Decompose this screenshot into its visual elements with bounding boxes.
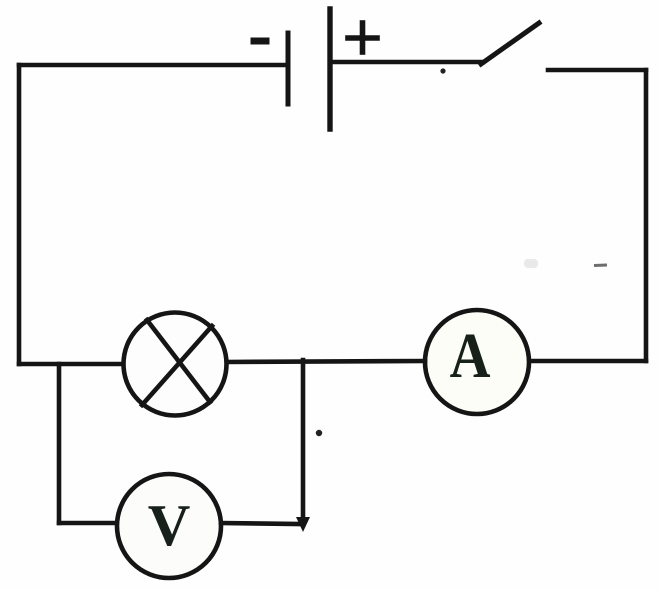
wire voltmeter to arrow junction xyxy=(221,523,300,524)
wire ammeter to lamp xyxy=(226,361,425,362)
faint smudge artifact xyxy=(524,259,538,268)
voltmeter U1 circle xyxy=(117,474,221,578)
wire right corner to ammeter xyxy=(529,359,646,364)
wire junction vertical with arrow xyxy=(301,360,306,518)
label - (battery negative) xyxy=(254,38,266,45)
lamp L1 cross diagonal 2 xyxy=(142,326,212,405)
wire lamp to left wall xyxy=(19,362,123,367)
wire voltmeter branch vertical left xyxy=(57,364,62,523)
wire right vertical xyxy=(644,70,649,361)
faint dash artifact right side xyxy=(594,264,607,268)
lamp L1 cross diagonal 1 xyxy=(147,320,210,402)
svg-text:A: A xyxy=(450,320,491,391)
wire battery to switch xyxy=(330,60,483,65)
wire left vertical xyxy=(17,65,22,364)
dot artifact below lamp wire xyxy=(316,430,322,436)
label + (battery positive) xyxy=(348,23,377,52)
wire top-left horizontal xyxy=(19,63,286,68)
battery BT1 negative plate xyxy=(286,33,291,104)
ammeter U2 circle xyxy=(425,310,529,414)
battery BT1 positive plate xyxy=(327,9,332,129)
lamp L1 circle xyxy=(124,313,227,416)
svg-text:V: V xyxy=(148,492,191,558)
dot artifact near switch xyxy=(440,68,445,73)
switch S1 blade xyxy=(481,23,539,64)
wire switch to top-right corner xyxy=(548,68,646,73)
wire branch to voltmeter xyxy=(59,521,116,526)
arrowhead at junction node xyxy=(296,517,310,532)
